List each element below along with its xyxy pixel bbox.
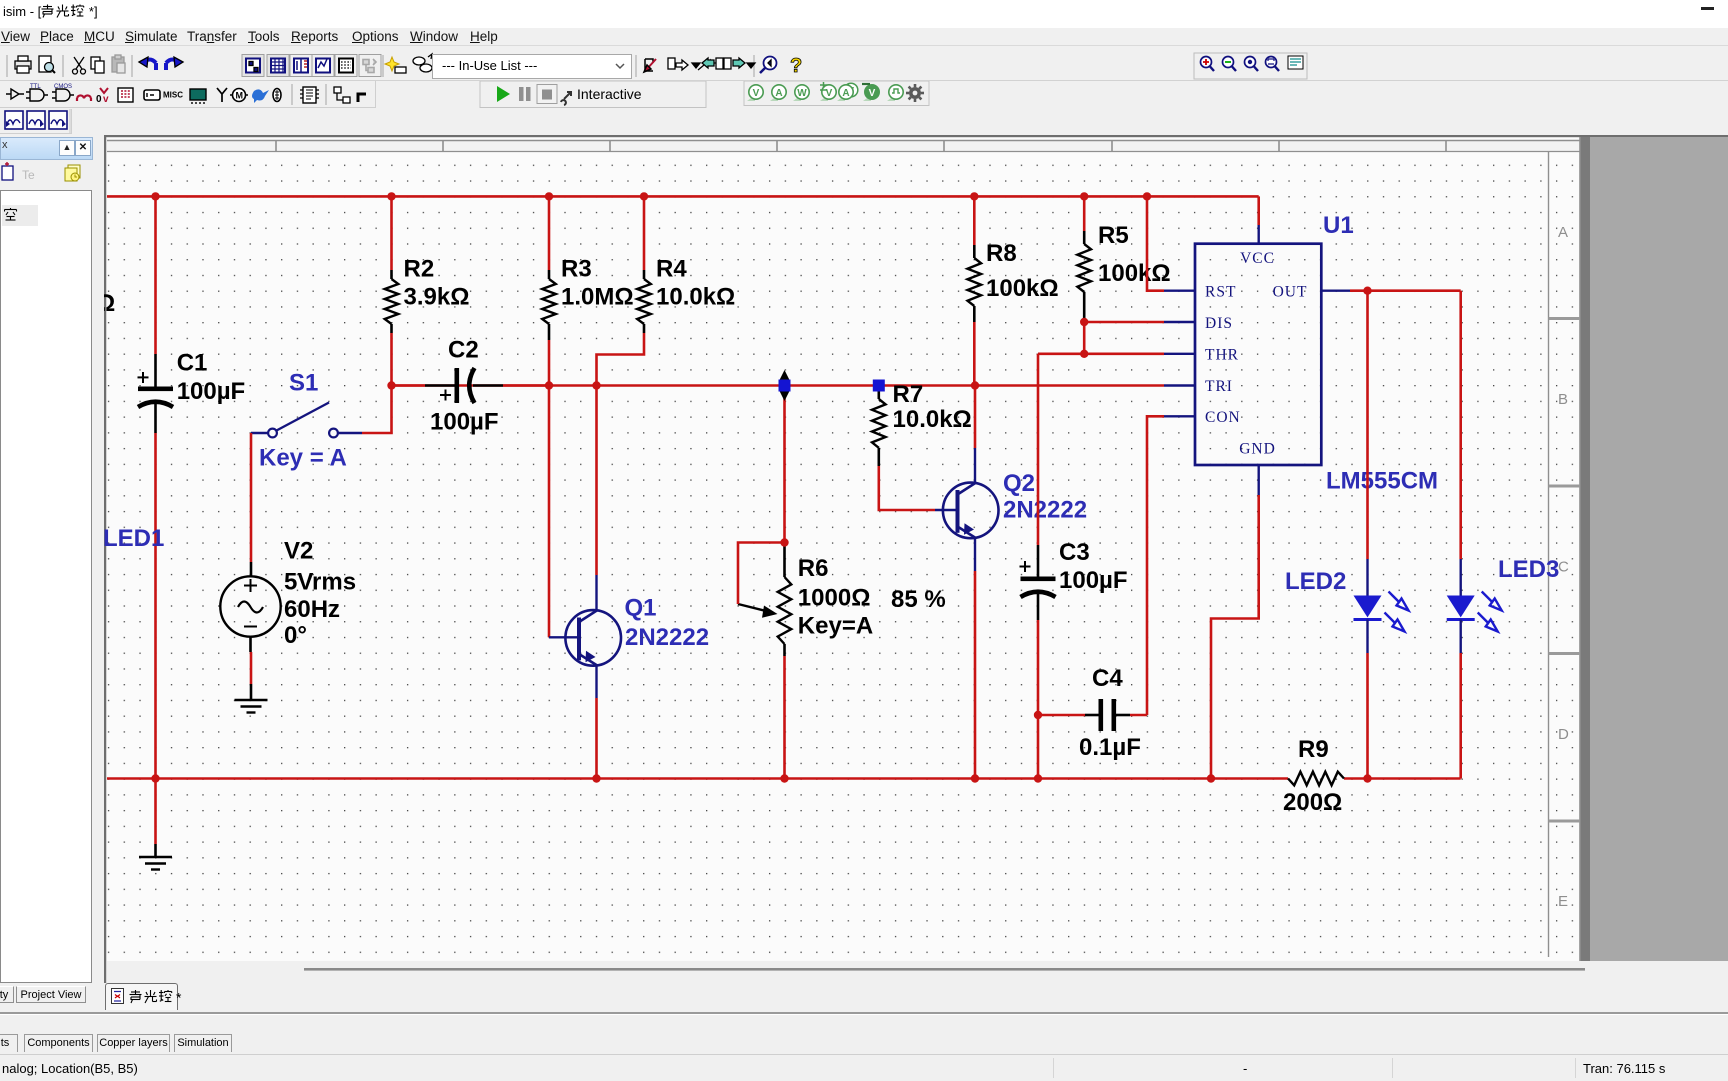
toolbar row 3: [0, 109, 1728, 135]
wire DIS: [1084, 321, 1164, 324]
svg-text:DIS: DIS: [1205, 315, 1233, 332]
svg-text:LED3: LED3: [1498, 556, 1559, 583]
svg-text:60Hz: 60Hz: [284, 596, 340, 623]
svg-text:10.0kΩ: 10.0kΩ: [893, 406, 972, 433]
wire Q1 collector: [595, 386, 598, 576]
svg-text:1.0MΩ: 1.0MΩ: [561, 284, 634, 311]
svg-text:R6: R6: [798, 555, 829, 582]
svg-text:V2: V2: [284, 538, 313, 565]
svg-text:VCC: VCC: [1240, 250, 1275, 267]
svg-text:Key=A: Key=A: [798, 613, 873, 640]
svg-text:GND: GND: [1239, 441, 1276, 458]
ground (main rail): [139, 779, 172, 870]
svg-text:100µF: 100µF: [177, 378, 246, 405]
svg-text:200Ω: 200Ω: [1283, 789, 1342, 816]
svg-text:0°: 0°: [284, 622, 307, 649]
svg-text:100kΩ: 100kΩ: [986, 275, 1059, 302]
svg-text:E: E: [1558, 893, 1568, 910]
svg-text:R3: R3: [561, 256, 592, 283]
wire LED2 branch: [1366, 291, 1369, 779]
svg-text:D: D: [1558, 726, 1569, 743]
svg-text:C2: C2: [448, 337, 479, 364]
resistor R4: [637, 196, 735, 333]
svg-text:85 %: 85 %: [891, 586, 946, 613]
svg-text:TTL: TTL: [30, 84, 41, 90]
resistor R5: [1077, 196, 1170, 322]
wire LED3 branch: [1459, 291, 1462, 779]
wire trigger bus: [392, 384, 1165, 387]
svg-text:100µF: 100µF: [430, 409, 499, 436]
svg-text:Q1: Q1: [625, 595, 657, 622]
svg-text:Key = A: Key = A: [259, 445, 347, 472]
svg-text:100µF: 100µF: [1059, 567, 1128, 594]
capacitor C2: [392, 337, 550, 436]
svg-text:2N2222: 2N2222: [1003, 497, 1087, 524]
wire RST: [1147, 196, 1164, 290]
resistor R3: [542, 196, 633, 385]
wire S1 to V2: [250, 433, 253, 562]
wire VCC top bus: [107, 196, 1259, 225]
wire R6 to rail: [783, 656, 786, 779]
svg-text:?: ?: [790, 55, 802, 77]
transistor Q1: [549, 575, 709, 698]
LED LED2: [1285, 559, 1409, 653]
toolbar row 2: [0, 81, 1728, 108]
svg-text:3.9kΩ: 3.9kΩ: [404, 284, 470, 311]
svg-text:5Vrms: 5Vrms: [284, 569, 356, 596]
transistor Q2: [935, 448, 1087, 571]
svg-text:R7: R7: [893, 381, 924, 408]
svg-text:OUT: OUT: [1273, 284, 1308, 301]
junction dots top bus: [151, 192, 1151, 200]
junction dots trigger bus: [387, 381, 979, 389]
svg-text:Q2: Q2: [1003, 470, 1035, 497]
svg-text:A: A: [775, 88, 782, 99]
junction dots rail: [151, 774, 1371, 782]
wire V2 to ground: [250, 652, 253, 684]
svg-text:RST: RST: [1205, 284, 1236, 301]
svg-text:MISC: MISC: [163, 91, 183, 100]
node handle (selected vertex): [779, 370, 791, 401]
svg-text:V: V: [869, 88, 876, 99]
wire OUT: [1350, 289, 1461, 292]
svg-text:R4: R4: [656, 256, 687, 283]
svg-text:10.0kΩ: 10.0kΩ: [656, 284, 735, 311]
svg-text:R2: R2: [404, 256, 435, 283]
bottom separators and sheet tabs: [0, 1012, 1728, 1014]
node R7 (selected): [873, 380, 885, 392]
wire S1 to C2 node: [362, 386, 392, 434]
svg-text:R5: R5: [1098, 222, 1129, 249]
svg-text:*: *: [176, 990, 182, 1006]
svg-text:A: A: [842, 88, 849, 99]
svg-text:R9: R9: [1298, 736, 1329, 763]
wire Q2 collector: [974, 386, 977, 449]
svg-text:LM555CM: LM555CM: [1326, 468, 1438, 495]
svg-text:R8: R8: [986, 240, 1017, 267]
wire R5 to THR: [1083, 322, 1086, 354]
resistor R7: [872, 381, 972, 466]
wire R3 node to Q1 base: [548, 386, 551, 638]
capacitor C4: [1038, 665, 1147, 761]
capacitor C3: [1020, 539, 1128, 620]
svg-text:CMOS: CMOS: [54, 84, 72, 90]
junction dots misc: [1034, 287, 1372, 720]
svg-text:THR: THR: [1205, 347, 1239, 364]
svg-text:C1: C1: [177, 350, 208, 377]
op-amp U1 LM555CM box: [1164, 225, 1350, 495]
svg-text:v: v: [103, 94, 109, 105]
menu bar: [0, 28, 1728, 46]
wire R7 to Q2 base: [879, 466, 935, 510]
wire THR to C3: [1037, 354, 1040, 545]
svg-text:C: C: [1558, 559, 1569, 576]
wire THR: [1038, 352, 1164, 355]
resistor R8: [968, 196, 1059, 385]
title bar: [0, 0, 1728, 28]
sheet background: [104, 135, 1728, 1013]
svg-text:1000Ω: 1000Ω: [798, 585, 871, 612]
wire R6 wiper: [738, 543, 785, 605]
svg-text:Ω: Ω: [104, 290, 115, 317]
ground (V2): [235, 684, 268, 713]
wire node to R6: [783, 386, 786, 543]
svg-text:LED2: LED2: [1285, 568, 1346, 595]
status bar: [0, 1054, 1728, 1081]
left design toolbox panel: [0, 137, 93, 160]
toolbar row 1: [0, 51, 1728, 81]
resistor R2: [385, 196, 470, 385]
junction R6 top: [780, 538, 788, 546]
svg-text:B: B: [1558, 391, 1568, 408]
svg-text:M: M: [236, 91, 244, 101]
wire ground rail: [107, 777, 1461, 780]
svg-text:W: W: [797, 88, 807, 99]
svg-text:TRI: TRI: [1205, 378, 1233, 395]
svg-text:100kΩ: 100kΩ: [1098, 260, 1171, 287]
capacitor C1: [138, 350, 246, 408]
switch S1: [251, 370, 362, 472]
svg-text:C4: C4: [1092, 665, 1123, 692]
wire Q2 emitter to rail: [974, 571, 977, 779]
wire R4 to trigger bus: [597, 333, 645, 386]
resistor R9: [1283, 736, 1344, 816]
svg-text:2N2222: 2N2222: [625, 624, 709, 651]
wire C3 to rail: [1037, 620, 1040, 779]
svg-text:Te: Te: [22, 168, 35, 182]
LED LED3: [1447, 556, 1560, 653]
wire CON: [1147, 416, 1164, 715]
svg-text:U1: U1: [1323, 212, 1354, 239]
svg-text:A: A: [1558, 224, 1568, 241]
svg-text:C3: C3: [1059, 539, 1090, 566]
svg-text:LED1: LED1: [104, 525, 164, 552]
svg-text:0.1µF: 0.1µF: [1079, 734, 1141, 761]
canvas area svg (schematic): [104, 135, 1728, 1013]
AC source V2: [220, 538, 356, 653]
document tab: [105, 983, 178, 1010]
svg-text:S1: S1: [289, 370, 318, 397]
wire Q1 emitter to rail: [595, 698, 598, 779]
wire C1 branch: [154, 196, 157, 778]
potentiometer R6: [738, 545, 873, 656]
svg-text:0: 0: [96, 94, 102, 105]
wire GND to rail: [1211, 495, 1259, 779]
svg-text:V: V: [753, 88, 760, 99]
svg-text:Interactive: Interactive: [577, 86, 642, 102]
svg-text:CON: CON: [1205, 409, 1241, 426]
